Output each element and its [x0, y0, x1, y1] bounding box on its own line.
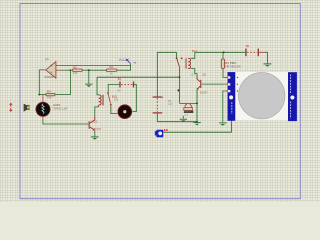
torch icon for LDR: [24, 104, 30, 112]
resistor R4: [46, 90, 55, 100]
node C junction R3/R2/ground: [88, 69, 90, 71]
wire R2 right with jog up to probe: [117, 64, 131, 71]
svg-text:R2: R2: [110, 65, 114, 69]
ground G1: [85, 84, 93, 87]
ground G2: [193, 122, 201, 125]
transistor Q1: [89, 117, 102, 131]
svg-text:12V: 12V: [168, 103, 173, 106]
svg-text:BC547: BC547: [94, 128, 102, 131]
wire Q2 emitter column: [196, 90, 198, 122]
wire node C down to ground: [88, 70, 90, 84]
wire relay contact bottom down column: [179, 70, 181, 103]
op-amp U1 bottom input pin wire: [56, 69, 72, 71]
wire relay contact top drop: [176, 52, 178, 57]
resistor R3: [72, 65, 82, 75]
battery B3: [118, 77, 134, 93]
wire battery B2 right lead to ground: [259, 52, 267, 63]
wire relay coil bottom to Q2 collector: [191, 69, 197, 79]
svg-text:R4: R4: [47, 90, 51, 94]
svg-text:Q2: Q2: [202, 72, 206, 76]
node E junction dot: [177, 89, 179, 91]
svg-text:B3: B3: [118, 77, 122, 81]
svg-text:B2: B2: [246, 44, 250, 48]
wire node A to R4 left: [39, 94, 46, 96]
relay RL2 coil: [99, 95, 104, 106]
svg-text:10uF: 10uF: [184, 114, 189, 116]
ground G6 under sounder: [180, 116, 187, 122]
wire PIR pin 3 to ground: [223, 91, 228, 122]
voltage probe: [119, 58, 137, 64]
wire R1 bottom lead to PIR pin 1: [223, 68, 228, 77]
battery B2: [245, 44, 259, 56]
wire R1 top lead: [222, 52, 224, 59]
node H junction top rail R1: [223, 51, 225, 53]
resistor R2: [106, 65, 117, 76]
wire Q1 emitter to ground: [94, 131, 96, 137]
wire down to lower coil top: [97, 77, 99, 95]
svg-text:RL1: RL1: [192, 49, 198, 53]
buzzer BU1: [112, 94, 132, 118]
transistor Q2: [192, 72, 209, 94]
battery B1: [153, 96, 173, 113]
wire PIR bottom pin to logic probe: [163, 120, 231, 132]
wire contact bottom to buzzer left: [111, 105, 118, 113]
svg-text:U1: U1: [45, 57, 49, 61]
node G junction rail/emitter/ground: [196, 121, 198, 123]
svg-text:R1: R1: [225, 61, 229, 65]
wire top rail: [157, 51, 245, 53]
wire R3 to R2: [82, 69, 106, 71]
relay RL1 contact: [176, 57, 183, 70]
wire buzzer battery right lead down to buzzer: [132, 84, 136, 111]
ground G5: [91, 136, 99, 139]
svg-text:BC547: BC547: [200, 92, 208, 95]
op-amp U1 top input pin wire: [56, 64, 131, 66]
relay RL1 coil: [185, 49, 197, 69]
ground G4: [263, 63, 271, 66]
node B junction op-amp input: [70, 69, 72, 71]
wire bottom rail: [157, 121, 197, 123]
svg-text:V=12.0: V=12.0: [119, 58, 130, 62]
node A junction at output/R4/LDR: [38, 94, 40, 96]
svg-text:9V: 9V: [118, 89, 121, 92]
wire LDR bottom to Q1 base: [43, 119, 89, 124]
svg-text:TORCH_LDR: TORCH_LDR: [53, 107, 68, 110]
torch up arrow actuator: [9, 103, 12, 107]
wire Q2 base to PIR pin 2: [202, 83, 228, 85]
wire Q1 collector to lower coil: [95, 105, 99, 117]
ground G3: [219, 122, 227, 125]
svg-text:10k: 10k: [47, 96, 52, 100]
wire op-amp output to R4/LDR node: [39, 70, 45, 95]
logic probe: [155, 129, 168, 137]
svg-text:(1): (1): [192, 73, 195, 76]
svg-text:10k: 10k: [73, 71, 78, 75]
svg-text:PIR1: PIR1: [230, 61, 236, 65]
wire R4 right up to inverting input node: [55, 70, 70, 94]
wire buzzer battery left lead and drop to contact: [108, 84, 119, 92]
wire battery B1 column: [156, 52, 158, 121]
sounder LS1: [184, 104, 194, 116]
svg-text:12V: 12V: [114, 98, 119, 101]
svg-text:OPAMP: OPAMP: [44, 75, 53, 79]
svg-text:Q1: Q1: [93, 119, 97, 123]
sheet border frame: [20, 4, 300, 199]
resistor R1: [221, 59, 241, 69]
wire horizontal net y77 from lower coil to relay contact column: [97, 76, 180, 78]
svg-text:+: +: [162, 96, 164, 100]
op-amp U1: [44, 57, 56, 79]
relay RL2 contact: [107, 92, 112, 105]
node D junction on contact column: [179, 76, 181, 78]
wire relay coil top link: [191, 52, 195, 58]
svg-text:R3: R3: [73, 65, 77, 69]
PIR sensor module PIR1: [228, 72, 297, 122]
LDR LDR1: [36, 95, 68, 119]
node F junction sounder net: [196, 103, 198, 105]
torch down arrow actuator: [9, 108, 12, 112]
wire sounder net horizontal: [180, 102, 198, 104]
svg-text:PIR-SENSOR: PIR-SENSOR: [225, 66, 241, 69]
